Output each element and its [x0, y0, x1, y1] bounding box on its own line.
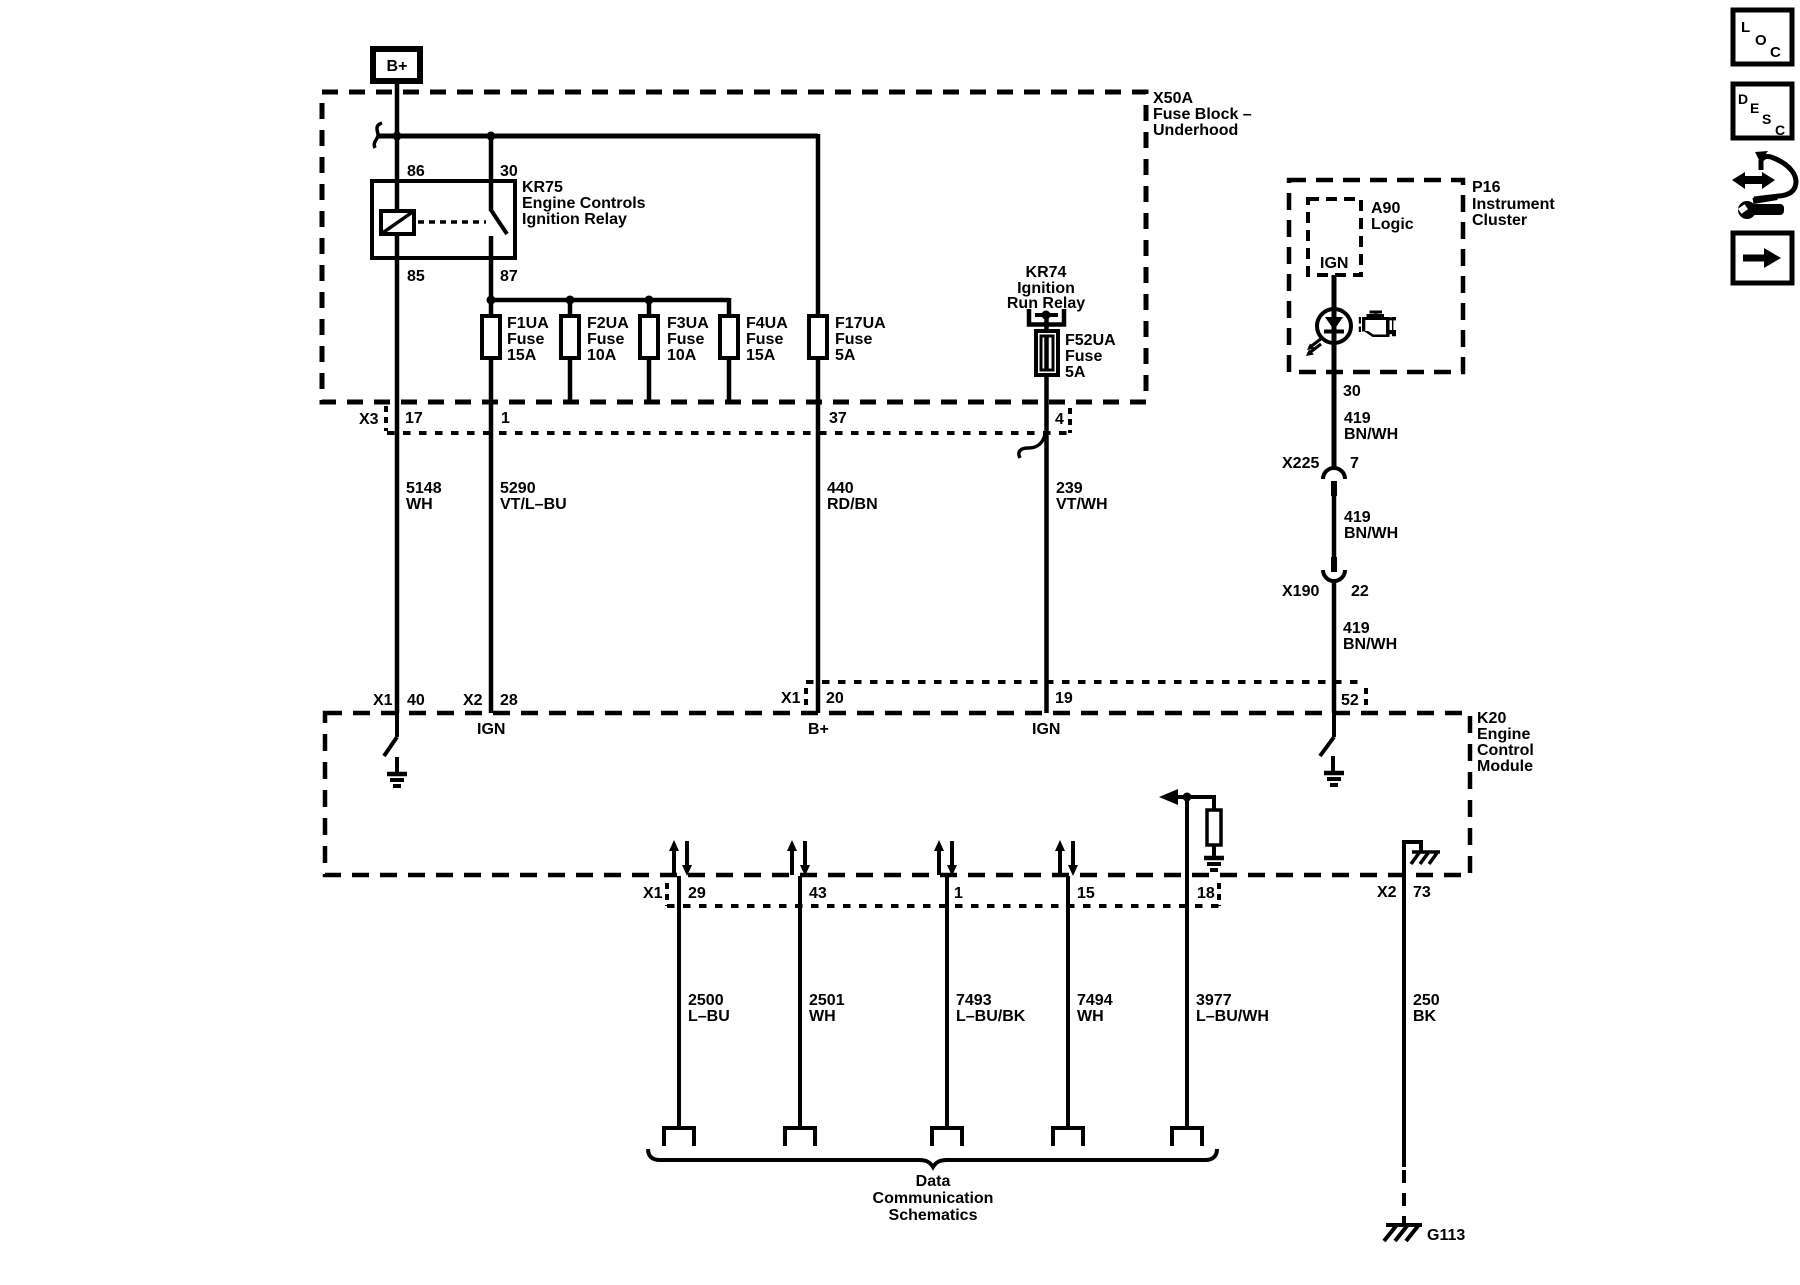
fuse F1UA	[482, 316, 500, 358]
engine icon	[1359, 311, 1396, 338]
icon DESC box	[1733, 84, 1792, 138]
wire 2501	[798, 876, 802, 1128]
connector row X3 dotted line	[387, 431, 1070, 435]
svg-text:C: C	[1775, 122, 1785, 138]
fuse F2UA	[561, 316, 579, 358]
icon arrow box	[1733, 233, 1792, 283]
relay KR75 switch blade	[491, 210, 507, 234]
svg-text:F1UA: F1UA	[507, 315, 549, 332]
svg-text:Fuse: Fuse	[746, 331, 783, 348]
svg-text:X50A: X50A	[1153, 90, 1193, 107]
svg-text:239: 239	[1056, 480, 1083, 497]
svg-text:L–BU: L–BU	[688, 1008, 730, 1025]
svg-text:22: 22	[1351, 583, 1369, 600]
svg-text:28: 28	[500, 692, 518, 709]
wire F4UA drop	[727, 298, 732, 402]
svg-text:X225: X225	[1282, 455, 1319, 472]
svg-text:F2UA: F2UA	[587, 315, 629, 332]
wire relay pin30 drop	[489, 136, 494, 211]
node data junction	[1183, 793, 1192, 802]
svg-text:P16: P16	[1472, 179, 1501, 196]
svg-text:30: 30	[1343, 383, 1361, 400]
svg-text:Fuse: Fuse	[835, 331, 872, 348]
svg-text:250: 250	[1413, 992, 1440, 1009]
svg-text:BN/WH: BN/WH	[1344, 426, 1398, 443]
K20 label	[1477, 710, 1534, 775]
svg-text:L–BU/BK: L–BU/BK	[956, 1008, 1026, 1025]
switch to ground pin52	[1320, 713, 1334, 756]
svg-text:Run Relay: Run Relay	[1007, 295, 1085, 312]
svg-text:K20: K20	[1477, 710, 1506, 727]
terminal 2500	[664, 1128, 694, 1146]
terminal 2501	[785, 1128, 815, 1146]
svg-text:BN/WH: BN/WH	[1343, 636, 1397, 653]
svg-text:7494: 7494	[1077, 992, 1113, 1009]
svg-text:1: 1	[954, 885, 963, 902]
connector X1 separator bottom	[665, 883, 669, 906]
svg-text:VT/WH: VT/WH	[1056, 496, 1108, 513]
svg-text:419: 419	[1344, 509, 1371, 526]
svg-text:15: 15	[1077, 885, 1095, 902]
wire 239 VT/WH label	[1056, 480, 1108, 513]
relay KR75 link dashed	[418, 220, 486, 224]
svg-text:15A: 15A	[746, 347, 776, 364]
svg-text:Schematics: Schematics	[889, 1207, 978, 1224]
instrument cluster P16 dashed box	[1289, 180, 1463, 372]
svg-text:WH: WH	[1077, 1008, 1104, 1025]
A90 label	[1371, 200, 1414, 233]
wire 419 BN/WH label 3	[1343, 620, 1397, 653]
svg-text:E: E	[1750, 100, 1759, 116]
svg-text:KR74: KR74	[1026, 264, 1067, 281]
svg-text:BK: BK	[1413, 1008, 1437, 1025]
svg-text:S: S	[1762, 111, 1771, 127]
wire X190 to pin 52	[1332, 580, 1337, 713]
connector X1 separator	[804, 688, 808, 710]
svg-text:85: 85	[407, 268, 425, 285]
svg-text:440: 440	[827, 480, 854, 497]
ECM K20 dashed box	[325, 713, 1470, 875]
svg-text:Fuse: Fuse	[507, 331, 544, 348]
svg-text:F3UA: F3UA	[667, 315, 709, 332]
svg-text:20: 20	[826, 690, 844, 707]
relay KR74 contact symbol	[1029, 309, 1064, 325]
svg-text:Communication: Communication	[873, 1190, 994, 1207]
connector X225	[1323, 468, 1345, 496]
svg-text:52: 52	[1341, 692, 1359, 709]
wire 2500	[677, 876, 681, 1128]
connector X190	[1323, 557, 1345, 581]
wire 419 BN/WH label 2	[1344, 509, 1398, 542]
svg-text:5A: 5A	[1065, 364, 1086, 381]
wire 7493	[945, 876, 949, 1128]
svg-text:L–BU/WH: L–BU/WH	[1196, 1008, 1269, 1025]
svg-text:419: 419	[1344, 410, 1371, 427]
wire X225 to X190	[1332, 496, 1337, 557]
wire 440 RD/BN label	[827, 480, 878, 513]
wire 5290 VT/L-BU label	[500, 480, 567, 513]
wire 87 to fuse bus	[489, 236, 494, 300]
terminal 3977	[1172, 1128, 1202, 1146]
svg-text:5290: 5290	[500, 480, 536, 497]
wire 250 BK	[1402, 840, 1406, 1167]
fuse block label X50A	[1153, 90, 1252, 139]
svg-text:86: 86	[407, 163, 425, 180]
svg-text:X190: X190	[1282, 583, 1319, 600]
wire data vertical to pin 18	[1185, 797, 1189, 1128]
ground pin52	[1324, 756, 1344, 785]
svg-text:Instrument: Instrument	[1472, 196, 1555, 213]
wire 7494	[1066, 876, 1070, 1128]
svg-text:2501: 2501	[809, 992, 845, 1009]
power feed B+ box	[373, 49, 420, 81]
svg-text:BN/WH: BN/WH	[1344, 525, 1398, 542]
wire F3UA drop	[647, 300, 652, 402]
svg-text:C: C	[1770, 44, 1781, 61]
P16 label	[1472, 179, 1555, 229]
svg-text:29: 29	[688, 885, 706, 902]
svg-text:Fuse: Fuse	[1065, 348, 1102, 365]
svg-text:F4UA: F4UA	[746, 315, 788, 332]
data bus arrow left	[1159, 789, 1214, 805]
svg-text:30: 30	[500, 163, 518, 180]
ground resistor	[1204, 845, 1224, 870]
ECM top connector dotted line	[806, 680, 1365, 684]
svg-text:A90: A90	[1371, 200, 1400, 217]
wire fuse bus	[491, 298, 729, 303]
icon diagnostic	[1732, 151, 1796, 219]
wire KR74 to F52UA	[1044, 315, 1049, 713]
icon LOC box	[1733, 10, 1792, 64]
data communication label	[873, 1173, 994, 1224]
brace data communication	[648, 1149, 1217, 1167]
svg-text:B+: B+	[808, 721, 829, 738]
wire IGN to LED	[1332, 275, 1337, 468]
svg-text:2500: 2500	[688, 992, 724, 1009]
wire B+ vertical	[395, 81, 400, 213]
svg-text:KR75: KR75	[522, 179, 563, 196]
svg-text:Module: Module	[1477, 758, 1533, 775]
svg-text:10A: 10A	[587, 347, 617, 364]
svg-text:X1: X1	[373, 692, 393, 709]
svg-text:1: 1	[501, 410, 510, 427]
node bus F2UA	[566, 296, 575, 305]
svg-text:VT/L–BU: VT/L–BU	[500, 496, 567, 513]
svg-text:IGN: IGN	[1320, 255, 1348, 272]
resistor terminating	[1207, 810, 1221, 845]
svg-text:419: 419	[1343, 620, 1370, 637]
svg-text:D: D	[1738, 91, 1748, 107]
logic A90 dashed box	[1308, 199, 1361, 275]
svg-text:L: L	[1741, 19, 1750, 36]
svg-text:73: 73	[1413, 884, 1431, 901]
node bus F3UA	[645, 296, 654, 305]
wire F2UA drop	[568, 300, 573, 402]
svg-text:19: 19	[1055, 690, 1073, 707]
hook at pin 4 wire	[1019, 435, 1045, 458]
terminal 7493	[932, 1128, 962, 1146]
wire 3977 label	[1196, 992, 1269, 1025]
relay KR75 coil	[381, 211, 414, 234]
svg-text:X2: X2	[463, 692, 483, 709]
svg-text:F52UA: F52UA	[1065, 332, 1116, 349]
svg-text:WH: WH	[809, 1008, 836, 1025]
svg-text:IGN: IGN	[477, 721, 505, 738]
switch to ground pin40	[384, 713, 397, 756]
svg-text:7493: 7493	[956, 992, 992, 1009]
svg-text:5148: 5148	[406, 480, 442, 497]
terminal 7494	[1053, 1128, 1083, 1146]
wire X2-73 elbow to chassis ground	[1404, 842, 1421, 852]
arrows pin43	[787, 840, 810, 876]
fuse F4UA	[720, 316, 738, 358]
wire 419 BN/WH label 1	[1344, 410, 1398, 443]
relay KR75 box	[372, 181, 515, 258]
connector separator right of 18	[1217, 883, 1221, 906]
svg-text:40: 40	[407, 692, 425, 709]
node bus F1UA	[487, 296, 496, 305]
arrows pin15	[1055, 840, 1078, 876]
connector separator right of 52	[1364, 688, 1368, 710]
svg-text:17: 17	[405, 410, 423, 427]
svg-text:10A: 10A	[667, 347, 697, 364]
svg-text:Control: Control	[1477, 742, 1534, 759]
svg-text:Cluster: Cluster	[1472, 212, 1527, 229]
svg-text:X3: X3	[359, 411, 379, 428]
wire 5148 WH label	[406, 480, 442, 513]
node junction bus/B+	[393, 132, 402, 141]
connector separator right of pin 4	[1068, 408, 1072, 433]
wire F1UA drop	[489, 300, 494, 713]
svg-text:Logic: Logic	[1371, 216, 1414, 233]
svg-text:87: 87	[500, 268, 518, 285]
svg-text:18: 18	[1197, 885, 1215, 902]
ECM bottom connector dotted line	[667, 904, 1219, 908]
svg-text:G113: G113	[1427, 1227, 1465, 1244]
wire dashed to G113	[1402, 1170, 1406, 1225]
svg-text:Engine Controls: Engine Controls	[522, 195, 646, 212]
svg-text:Engine: Engine	[1477, 726, 1530, 743]
chassis ground internal	[1411, 852, 1440, 864]
svg-text:43: 43	[809, 885, 827, 902]
svg-text:X1: X1	[781, 690, 801, 707]
connector X3 separator left	[384, 406, 388, 431]
ground pin40	[387, 757, 407, 786]
hook at bus left end	[374, 123, 382, 148]
relay KR74 label	[1007, 264, 1085, 312]
svg-text:Data: Data	[916, 1173, 951, 1190]
fuse F52UA	[1036, 331, 1058, 375]
svg-text:Fuse: Fuse	[587, 331, 624, 348]
svg-text:7: 7	[1350, 455, 1359, 472]
wire top bus	[377, 134, 818, 139]
wire to resistor	[1212, 795, 1216, 810]
wire F17UA drop	[816, 134, 821, 713]
svg-text:RD/BN: RD/BN	[827, 496, 878, 513]
wire coil to pin 17	[395, 234, 400, 713]
ground G113 chassis	[1384, 1225, 1422, 1241]
fuse F17UA	[809, 316, 827, 358]
svg-text:X1: X1	[643, 885, 663, 902]
fuse F3UA	[640, 316, 658, 358]
relay KR75 label	[522, 179, 646, 228]
indicator LED lamp	[1306, 309, 1351, 356]
svg-text:Fuse: Fuse	[667, 331, 704, 348]
svg-text:Ignition Relay: Ignition Relay	[522, 211, 627, 228]
svg-text:37: 37	[829, 410, 847, 427]
fuse block X50A dashed box	[322, 92, 1146, 402]
arrows pin1	[934, 840, 957, 876]
svg-text:O: O	[1755, 32, 1767, 49]
svg-text:4: 4	[1055, 411, 1064, 428]
svg-text:Fuse Block –: Fuse Block –	[1153, 106, 1252, 123]
svg-text:B+: B+	[387, 58, 408, 75]
svg-text:3977: 3977	[1196, 992, 1232, 1009]
node junction bus/relay30	[487, 132, 496, 141]
svg-text:WH: WH	[406, 496, 433, 513]
arrows pin29	[669, 840, 692, 876]
svg-text:F17UA: F17UA	[835, 315, 886, 332]
svg-text:15A: 15A	[507, 347, 537, 364]
svg-text:IGN: IGN	[1032, 721, 1060, 738]
svg-text:X2: X2	[1377, 884, 1397, 901]
svg-text:Underhood: Underhood	[1153, 122, 1238, 139]
svg-text:5A: 5A	[835, 347, 856, 364]
